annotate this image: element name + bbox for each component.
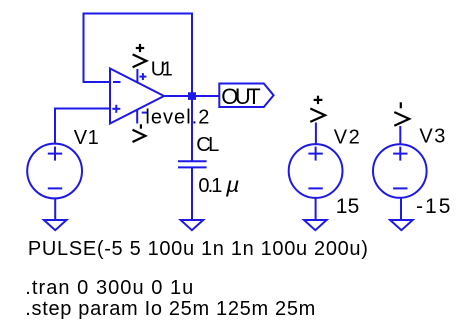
svg-text:V1: V1 (74, 127, 99, 149)
svg-text:15: 15 (336, 195, 360, 218)
svg-text:-15: -15 (416, 195, 450, 218)
svg-text:V2: V2 (334, 126, 360, 148)
svg-text:0.1: 0.1 (198, 175, 222, 197)
svg-text:µ: µ (225, 174, 240, 197)
svg-text:U1: U1 (151, 59, 173, 81)
svg-text:.step param Io 25m 125m 25m: .step param Io 25m 125m 25m (25, 298, 315, 320)
svg-text:PULSE(-5 5 100u 1n 1n 100u 200: PULSE(-5 5 100u 1n 1n 100u 200u) (28, 238, 368, 260)
svg-text:OUT: OUT (221, 84, 260, 109)
svg-text:CL: CL (196, 134, 219, 156)
svg-text:V3: V3 (419, 126, 445, 148)
svg-text:.tran 0 300u 0 1u: .tran 0 300u 0 1u (25, 277, 193, 299)
svg-text:level.2: level.2 (145, 106, 209, 128)
